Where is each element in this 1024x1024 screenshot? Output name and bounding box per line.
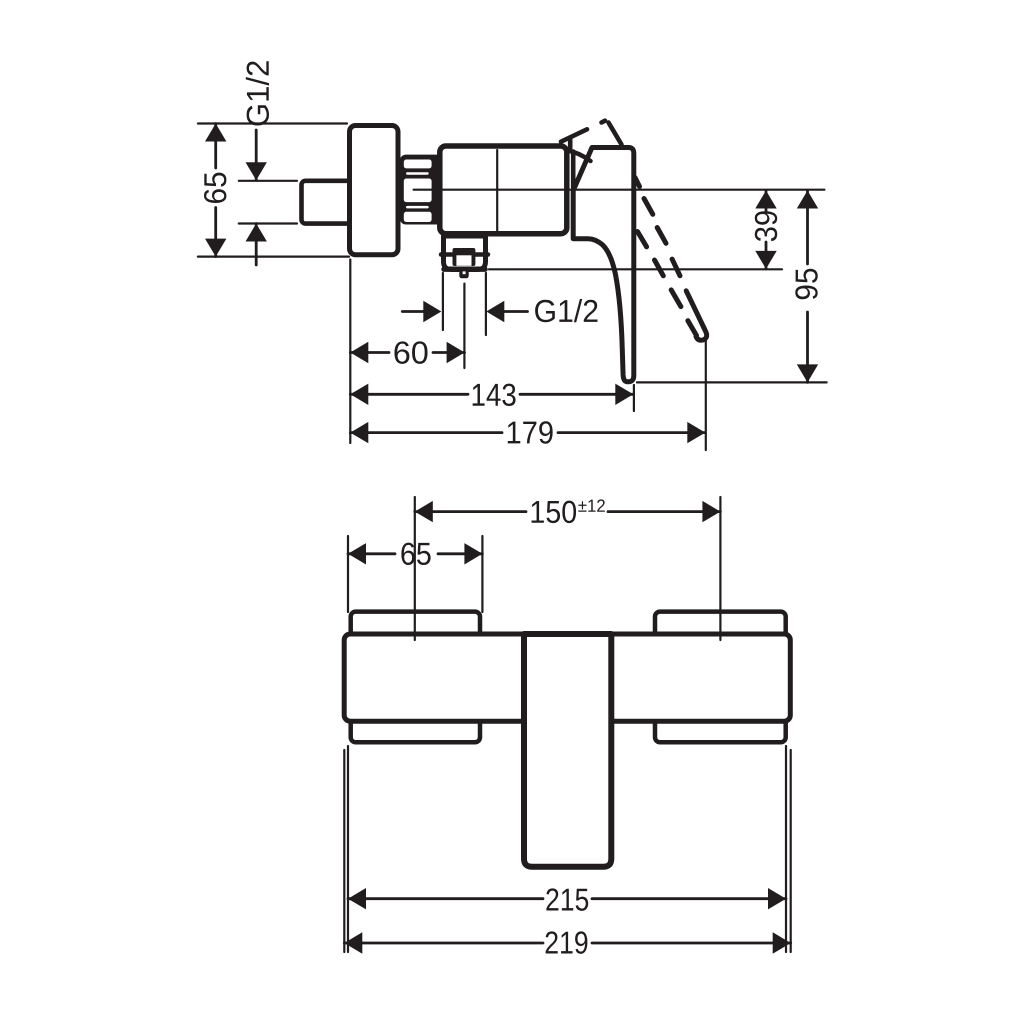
ext line flange left (65 ref) (347, 536, 349, 612)
dim 65 bottom arrow left (348, 543, 366, 564)
dim 219 arrow left (344, 932, 362, 953)
ext line left flange center (414, 497, 416, 640)
dim 65 bottom arrow right (464, 543, 482, 564)
mixer body front (524, 634, 611, 867)
ext line 215 left (347, 746, 349, 952)
body vertical section line (496, 150, 498, 231)
left S-union flange (351, 612, 480, 743)
dim 39 arrow up (755, 191, 776, 209)
dim 95 arrow down (797, 364, 818, 382)
outlet nipple window (456, 255, 471, 265)
label G1/2 rotated (246, 61, 269, 125)
ext line port bottom (G1/2 ref) (239, 222, 297, 224)
centerline (414, 189, 825, 191)
ext line flange right (65 ref) (481, 536, 483, 612)
ext line right flange center (719, 497, 721, 640)
label 215 (546, 888, 588, 910)
nut window top (404, 160, 432, 169)
dim 219 line (344, 942, 790, 945)
outlet nub dot (463, 271, 466, 274)
handle lever (closed position, solid) (573, 148, 634, 382)
label 143 (473, 384, 516, 406)
open handle dashed: head dash 1 (561, 129, 587, 141)
dim 215 line (348, 897, 786, 900)
label 150 sup 12 (532, 501, 577, 523)
dim 65 arrow up (205, 124, 226, 142)
handle base edge upper (571, 152, 576, 189)
open handle dashed: left tick (568, 139, 573, 149)
handle collar curve (568, 151, 591, 162)
dim 215 arrow left (348, 888, 366, 909)
ext line outlet left (442, 273, 444, 330)
ext line port top (G1/2 ref) (239, 180, 297, 182)
escutcheon (wall rosette) (350, 126, 399, 255)
dim 143 arrow right (615, 384, 633, 405)
outlet nub (459, 269, 468, 279)
nut chamfer stripe top (406, 172, 429, 175)
dim 65 bottom line (348, 552, 482, 555)
lever tip reference line (95 bottom) (637, 381, 827, 383)
dim G1/2 (port) arrow up (246, 224, 267, 242)
dim 150 arrow left (415, 501, 433, 522)
ext line 215 right (785, 746, 787, 952)
dim 179 arrow left (350, 422, 368, 443)
outlet housing (444, 236, 486, 270)
right S-union flange (655, 612, 786, 743)
dim 39 line (765, 191, 768, 269)
union nut (400, 155, 443, 225)
outlet nipple (453, 248, 476, 266)
dim 219 arrow right (773, 932, 791, 953)
dim 65 arrow down (205, 239, 226, 257)
ext line escutcheon bottom (65 ref) (198, 256, 349, 258)
wall supply port G1/2 (302, 181, 352, 224)
dim 60 arrow right (447, 342, 465, 363)
label 65 bottom (401, 543, 430, 565)
dim 143 line (350, 393, 633, 396)
dim G1/2 (port) line (255, 130, 258, 265)
dim 150 arrow right (702, 501, 720, 522)
lever pivot reference line (39 bottom) (489, 268, 782, 270)
label 65 rotated (204, 173, 226, 203)
outlet divider line (441, 252, 488, 257)
dim G1/2 (outlet) right arrow (504, 310, 528, 313)
ext line escutcheon top (65 ref) (198, 122, 347, 124)
open lever dashed line B (638, 232, 697, 336)
dim 143 arrow left (350, 384, 368, 405)
label 39 rotated (755, 211, 777, 241)
label 219 (546, 931, 588, 953)
label G1/2 outlet (535, 299, 597, 322)
ext line 219 right (790, 750, 792, 952)
ext line 219 left (343, 750, 345, 952)
dim 95 arrow up (797, 191, 818, 209)
dim G1/2 (outlet) left arrow (402, 310, 424, 313)
body bar (344, 634, 790, 721)
valve body (440, 146, 567, 234)
ext line lever tip (143 ref) (633, 385, 635, 411)
ext line handle outer (179 ref) (705, 339, 707, 450)
dim G1/2 (port) arrow down (246, 162, 267, 180)
dim 179 line (350, 431, 705, 434)
wall plane ext line (349, 260, 351, 444)
open lever dashed line A (635, 178, 680, 276)
label 60 (394, 341, 427, 363)
dim 39 arrow down (755, 251, 776, 269)
outlet bottom band (444, 267, 485, 272)
nut window bottom (404, 212, 432, 222)
dim 95 line (806, 191, 809, 383)
nut window middle (404, 179, 432, 203)
dim 60 line (350, 351, 464, 354)
dim 65 line (214, 124, 217, 257)
open handle dashed: head dash 4 (609, 123, 622, 145)
ext line outlet right (485, 273, 487, 335)
dim 179 arrow right (687, 422, 705, 443)
label 95 rotated (795, 269, 817, 300)
open handle dashed: head dash 3 (602, 121, 606, 123)
dim 60 arrow left (350, 342, 368, 363)
label 179 (508, 421, 553, 443)
dim 150 line (415, 510, 721, 513)
ext line outlet center (463, 284, 465, 368)
nut chamfer stripe bottom (406, 206, 429, 209)
open lever end cap (686, 291, 706, 340)
dim 215 arrow right (768, 888, 786, 909)
